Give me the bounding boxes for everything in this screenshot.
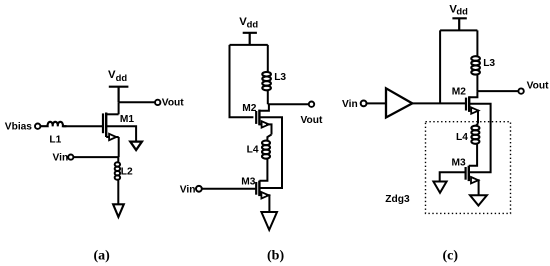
wire L2 to ground (a) [117, 180, 119, 205]
wire Vdd rail to L3 (c) [476, 30, 478, 56]
wire M2 drain to node (c) [469, 91, 477, 97]
wire L3 to drain node (c) [476, 74, 478, 91]
svg-text:(b): (b) [267, 248, 284, 263]
transistor M2 (b) [256, 110, 271, 135]
wire Vout (a) [119, 101, 155, 103]
svg-text:Zdg3: Zdg3 [385, 194, 410, 205]
ground M1 bulk (a) [130, 142, 142, 150]
ground M3 gate (c) [433, 182, 446, 193]
svg-text:M2: M2 [242, 103, 256, 114]
wire L4 to M3 drain (b) [259, 159, 267, 181]
wire M1 source to Vin node (a) [118, 137, 120, 157]
transistor M1 [103, 113, 119, 141]
wire left rail to M2 gate (b) [230, 45, 254, 117]
inductor L4 (c) [471, 126, 479, 144]
wire Vin to M3 gate (b) [202, 188, 256, 190]
svg-text:M3: M3 [241, 176, 255, 187]
terminal Vbias [35, 124, 40, 129]
svg-text:(c): (c) [443, 248, 459, 263]
label Vdd (c) [449, 4, 468, 17]
transistor M3 (b) [256, 181, 269, 212]
svg-text:Vout: Vout [527, 81, 549, 92]
svg-text:dd: dd [247, 19, 259, 30]
transistor M2 (c) [466, 96, 479, 123]
wire M2 bulk down (c) [469, 104, 491, 172]
wire Vout (c) [477, 90, 518, 92]
power supply Vdd (a) [109, 87, 129, 103]
terminal Vin (c) [361, 101, 367, 107]
svg-text:Vin: Vin [53, 153, 69, 164]
wire Vout (b) [268, 103, 309, 105]
wire Vin node to L2 (a) [117, 157, 119, 163]
terminal Vin (a) [68, 155, 73, 160]
wire amp to M2 gate (c) [412, 102, 466, 104]
ground M3 source (c) [470, 195, 487, 205]
svg-text:Vbias: Vbias [5, 122, 33, 133]
svg-text:L4: L4 [456, 132, 468, 143]
svg-text:dd: dd [116, 72, 128, 83]
wire L3 to drain node (b) [267, 90, 269, 104]
wire L4 to M3 drain (c) [469, 144, 477, 166]
wire left rail (c) [439, 30, 441, 103]
svg-text:M3: M3 [452, 157, 466, 168]
terminal Vout (b) [309, 102, 314, 107]
terminal Vout (a) [155, 100, 160, 105]
wire top rail (c) [440, 29, 477, 31]
svg-text:L3: L3 [483, 58, 495, 69]
svg-text:L1: L1 [49, 134, 61, 145]
wire M2 drain to node (b) [259, 104, 269, 111]
power supply Vdd (c) [452, 18, 466, 30]
terminal Vout (c) [518, 88, 523, 93]
svg-text:Vout: Vout [301, 115, 323, 126]
inductor L2 [115, 162, 120, 180]
label Vdd (b) [239, 16, 258, 29]
power supply Vdd (b) [243, 33, 257, 45]
inductor L4 (b) [262, 141, 270, 159]
amplifier buffer (c) [386, 88, 412, 117]
svg-text:L2: L2 [121, 166, 133, 177]
svg-text:L3: L3 [274, 72, 286, 83]
wire Vdd stub to drain node (a) [118, 102, 120, 114]
inductor L3 (b) [262, 72, 271, 90]
wire Vin to amp (c) [367, 102, 387, 104]
svg-text:L4: L4 [247, 144, 259, 155]
wire L1 to M1 gate [63, 125, 103, 127]
svg-text:Vin: Vin [180, 185, 196, 196]
svg-text:M1: M1 [120, 114, 134, 125]
wire M1 bulk (a) [106, 126, 136, 141]
svg-text:dd: dd [456, 6, 468, 17]
ground bottom (a) [113, 204, 124, 217]
inductor L3 (c) [471, 56, 480, 74]
svg-text:Vin: Vin [342, 99, 358, 110]
wire M2 bulk down (b) [259, 117, 282, 188]
transistor M3 (c) [466, 166, 479, 195]
terminal Vin (b) [196, 186, 202, 192]
ground (b) [261, 212, 277, 230]
dotted box Zdg3 [426, 122, 511, 214]
label Vdd (a) [108, 69, 127, 83]
wire Vdd rail to L3 (b) [267, 45, 269, 72]
wire M3 gate to ground (c) [440, 172, 466, 181]
wire top rail (b) [230, 44, 268, 46]
svg-text:M2: M2 [452, 86, 466, 97]
wire M2 source to L4 (c) [476, 124, 478, 126]
wire Vin (a) [73, 156, 118, 158]
svg-text:Vout: Vout [162, 98, 184, 109]
wire M2 source jog to L4 (b) [267, 135, 271, 141]
svg-text:(a): (a) [94, 248, 111, 263]
inductor L1 [41, 122, 66, 126]
